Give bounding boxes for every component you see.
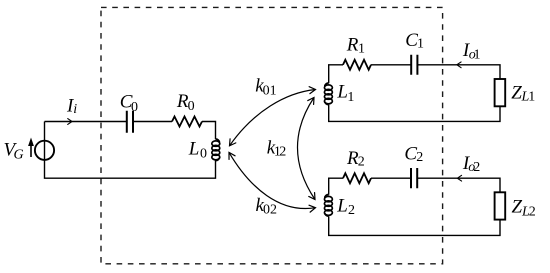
wire: C1 to top-right corner and down to ZL1 bbox=[418, 65, 500, 79]
resistor R2 bbox=[343, 173, 371, 183]
svg-text:2: 2 bbox=[358, 155, 365, 170]
resistor R0 bbox=[172, 117, 202, 127]
svg-text:L: L bbox=[336, 82, 348, 103]
capacitor C2 bbox=[411, 168, 417, 188]
source VG arrow bbox=[30, 144, 32, 157]
svg-text:Z: Z bbox=[512, 197, 523, 218]
coupling arrow k02 bbox=[229, 152, 316, 208]
inductor L1 bbox=[324, 83, 332, 105]
svg-text:0: 0 bbox=[263, 203, 270, 218]
wire: left loop top (source to C0) bbox=[45, 121, 127, 123]
coupling arrow k01 bbox=[230, 90, 316, 146]
wire: C2 to top-right corner and down to ZL2 bbox=[418, 178, 500, 192]
svg-text:1: 1 bbox=[417, 37, 424, 52]
dashed boundary box bbox=[101, 7, 443, 263]
capacitor C0 bbox=[127, 111, 133, 133]
svg-text:2: 2 bbox=[473, 160, 480, 175]
inductor L0 bbox=[212, 139, 220, 161]
wire: R1 to C1 bbox=[371, 64, 411, 66]
capacitor C1 bbox=[411, 55, 417, 75]
current arrow Io2 bbox=[457, 177, 464, 179]
svg-text:L: L bbox=[188, 139, 200, 160]
svg-text:1: 1 bbox=[474, 47, 481, 62]
resistor R1 bbox=[343, 60, 371, 70]
inductor L2 bbox=[324, 195, 332, 217]
svg-text:0: 0 bbox=[188, 99, 195, 114]
svg-text:2: 2 bbox=[529, 204, 536, 219]
wire: ZL2 to bottom and back to L2 bbox=[329, 216, 500, 235]
svg-text:G: G bbox=[14, 147, 24, 162]
svg-text:0: 0 bbox=[200, 146, 207, 161]
svg-text:0: 0 bbox=[131, 100, 138, 115]
svg-text:2: 2 bbox=[270, 203, 277, 218]
impedance ZL1 bbox=[495, 79, 506, 106]
svg-text:i: i bbox=[73, 102, 77, 117]
wire: L0 bottom to bottom-left corner and up to source bbox=[45, 122, 216, 179]
svg-text:L: L bbox=[336, 196, 348, 217]
wire: R0 to top-right corner and down to L0 bbox=[202, 122, 216, 140]
wire: C0 to R0 bbox=[133, 121, 172, 123]
svg-text:1: 1 bbox=[358, 41, 365, 56]
wire: top-right loop, left side and top to R1 bbox=[329, 65, 343, 83]
current arrow Io1 bbox=[457, 64, 464, 66]
impedance ZL2 bbox=[495, 192, 506, 219]
wire: ZL1 to bottom and back to L1 bbox=[329, 105, 500, 122]
wire: bottom-right loop, left side and top to R2 bbox=[329, 178, 343, 195]
svg-text:R: R bbox=[346, 34, 359, 55]
current arrow Ii bbox=[64, 121, 72, 123]
wire: R2 to C2 bbox=[371, 177, 411, 179]
svg-text:1: 1 bbox=[270, 83, 277, 98]
source VG bbox=[35, 141, 54, 160]
svg-text:2: 2 bbox=[279, 144, 286, 159]
svg-text:1: 1 bbox=[528, 90, 535, 105]
svg-text:1: 1 bbox=[347, 90, 354, 105]
coupling arrow k12 bbox=[297, 98, 315, 200]
svg-text:0: 0 bbox=[263, 83, 270, 98]
svg-text:2: 2 bbox=[348, 203, 355, 218]
svg-text:2: 2 bbox=[416, 150, 423, 165]
